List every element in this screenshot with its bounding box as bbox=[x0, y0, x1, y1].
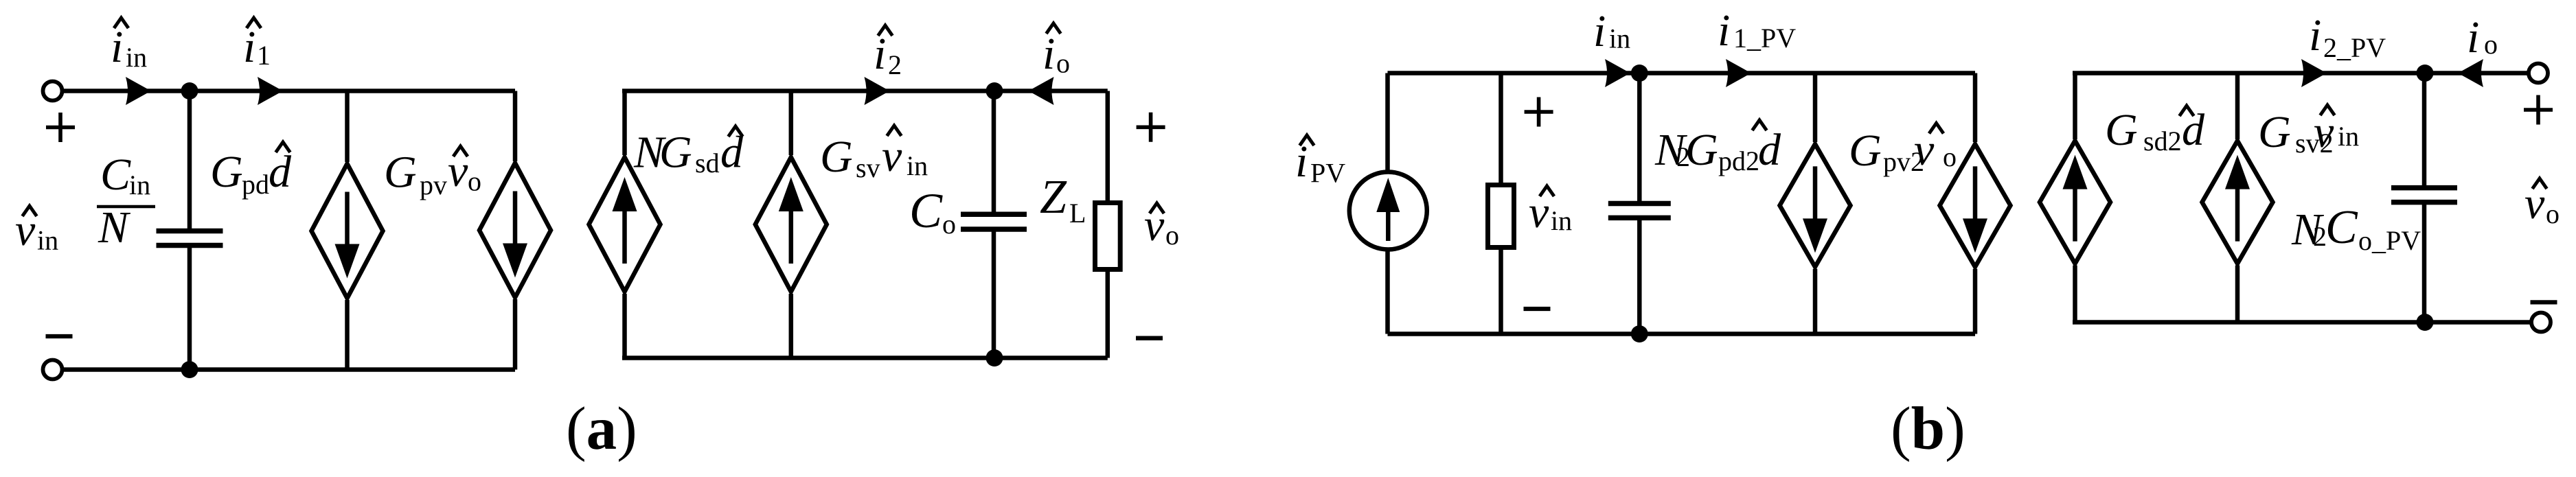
wire left edge top (a-right) bbox=[622, 91, 627, 156]
wire top rail to source N2Gpd2 bbox=[1813, 73, 1818, 143]
current source N2*Gpd2*d bbox=[1780, 144, 1851, 267]
terminal input - (a) bbox=[43, 360, 62, 380]
svg-text:(b): (b) bbox=[1891, 395, 1965, 463]
arrow i_o current direction (b) bbox=[2458, 59, 2483, 87]
svg-text:N: N bbox=[98, 202, 131, 253]
wire right edge bottom (b-left) bbox=[1973, 269, 1978, 334]
svg-text:pd: pd bbox=[242, 169, 269, 200]
svg-text:G: G bbox=[820, 132, 853, 182]
impedance ZL bbox=[1095, 203, 1121, 270]
arrow i_1_PV current direction bbox=[1726, 59, 1751, 87]
current source Gsd2*d bbox=[2040, 141, 2110, 264]
svg-text:C: C bbox=[909, 183, 943, 238]
terminal output - (b) bbox=[2531, 313, 2551, 332]
plus sign v_in (a) bbox=[46, 113, 75, 142]
wire node to capacitor N2Co_PV bbox=[2422, 73, 2427, 189]
arrow i_1 current direction bbox=[258, 77, 283, 105]
node output top junction (b) bbox=[2417, 65, 2434, 82]
svg-text:o: o bbox=[1165, 220, 1179, 251]
wire top rail right block (a) bbox=[622, 89, 1108, 93]
current source Gpv*vo bbox=[479, 163, 551, 298]
svg-text:i: i bbox=[874, 29, 886, 79]
svg-text:o: o bbox=[942, 209, 956, 240]
wire top rail left block (b) bbox=[1388, 71, 1976, 75]
svg-text:in: in bbox=[129, 170, 150, 200]
svg-text:in: in bbox=[1609, 23, 1630, 54]
svg-text:L: L bbox=[1069, 198, 1086, 229]
svg-text:pv: pv bbox=[420, 170, 447, 200]
minus sign v_in (a) bbox=[46, 334, 73, 338]
wire top rail to source Gsv2 bbox=[2235, 73, 2240, 140]
svg-text:o: o bbox=[468, 166, 481, 197]
wire left edge bottom (a-right) bbox=[622, 294, 627, 358]
wire top rail to resistor (b) bbox=[1498, 73, 1503, 184]
svg-text:PV: PV bbox=[1310, 158, 1345, 189]
wire top rail to load ZL bbox=[1106, 91, 1110, 202]
wire top rail left block (a) bbox=[63, 89, 515, 93]
svg-text:in: in bbox=[37, 225, 58, 256]
svg-text:i: i bbox=[2309, 10, 2321, 60]
terminal output + (b) bbox=[2529, 64, 2548, 83]
wire bottom rail right block (a) bbox=[622, 356, 1108, 360]
wire top rail to source Gpd bbox=[345, 91, 350, 163]
svg-text:o: o bbox=[2546, 198, 2560, 229]
current source Gpv2*vo bbox=[1940, 144, 2011, 267]
wire left edge top (b-left) bbox=[1385, 73, 1390, 174]
capacitor input (b) bbox=[1608, 201, 1671, 207]
terminal input + (a) bbox=[43, 82, 62, 101]
wire right edge bottom (a-left) bbox=[513, 299, 518, 370]
wire node to capacitor Co bbox=[992, 91, 996, 216]
svg-text:sd2: sd2 bbox=[2143, 126, 2182, 156]
minus sign v_o (b) bbox=[2531, 300, 2557, 304]
svg-text:o: o bbox=[2484, 29, 2498, 60]
svg-text:in: in bbox=[2338, 121, 2359, 152]
svg-text:i: i bbox=[111, 22, 123, 72]
wire left edge bottom (b-right) bbox=[2073, 266, 2077, 323]
svg-text:v: v bbox=[882, 131, 902, 181]
svg-text:G: G bbox=[210, 147, 243, 197]
svg-text:sv: sv bbox=[856, 152, 880, 183]
svg-text:(a): (a) bbox=[566, 395, 637, 463]
svg-text:G: G bbox=[659, 128, 692, 178]
svg-text:2_PV: 2_PV bbox=[2323, 32, 2386, 63]
current source Gsv*vin bbox=[755, 157, 827, 292]
wire source Gpd to bottom rail bbox=[345, 300, 350, 370]
node input top junction (b) bbox=[1631, 65, 1648, 82]
node output top junction (a) bbox=[986, 82, 1003, 100]
wire capacitor Co to bottom rail bbox=[992, 229, 996, 358]
minus sign v_o (a) bbox=[1136, 336, 1163, 340]
svg-text:v: v bbox=[2314, 107, 2334, 157]
svg-text:1_PV: 1_PV bbox=[1733, 23, 1796, 54]
wire capacitor Cin to bottom rail bbox=[187, 247, 192, 370]
arrow i_in current direction bbox=[126, 77, 151, 105]
capacitor Co bbox=[961, 212, 1027, 218]
arrow i_2_PV current direction bbox=[2301, 59, 2327, 87]
minus sign v_in (b) bbox=[1524, 307, 1551, 311]
node output bottom junction (b) bbox=[2417, 314, 2434, 331]
svg-text:i: i bbox=[1593, 6, 1606, 56]
wire top rail to source Gsv bbox=[789, 91, 794, 156]
capacitor Cin/N bbox=[157, 229, 223, 234]
wire left edge top (b-right) bbox=[2073, 73, 2077, 140]
wire node to capacitor Cin bbox=[187, 91, 192, 230]
wire bottom rail left block (b) bbox=[1388, 331, 1976, 336]
wire resistor to bottom rail (b) bbox=[1498, 249, 1503, 334]
wire bottom rail left block (a) bbox=[63, 367, 515, 372]
node input bottom junction bbox=[181, 361, 198, 378]
svg-text:1: 1 bbox=[257, 40, 271, 71]
svg-text:2: 2 bbox=[2313, 221, 2327, 252]
node output bottom junction (a) bbox=[986, 349, 1003, 367]
svg-text:o: o bbox=[1943, 141, 1957, 172]
wire bottom rail right block (b) bbox=[2073, 320, 2533, 325]
svg-text:in: in bbox=[126, 42, 147, 73]
wire capacitor N2Co_PV to bottom rail bbox=[2422, 202, 2427, 323]
svg-text:G: G bbox=[2258, 107, 2291, 157]
svg-text:i: i bbox=[1042, 29, 1055, 79]
wire load ZL to bottom rail bbox=[1106, 271, 1110, 358]
arrow i_2 current direction bbox=[865, 77, 890, 105]
current source Gpd*d bbox=[312, 164, 383, 299]
node input bottom junction (b) bbox=[1631, 325, 1648, 342]
svg-text:pd2: pd2 bbox=[1718, 146, 1759, 176]
svg-text:i: i bbox=[2467, 12, 2479, 62]
wire left edge bottom (b-left) bbox=[1385, 249, 1390, 334]
wire source N2Gpd2 to bottom rail bbox=[1813, 269, 1818, 334]
arrow i_in current direction (b) bbox=[1605, 59, 1630, 87]
plus sign v_o (a) bbox=[1137, 113, 1165, 142]
capacitor N2*Co_PV bbox=[2391, 185, 2457, 191]
svg-text:G: G bbox=[2105, 105, 2138, 155]
plus sign v_o (b) bbox=[2524, 95, 2553, 125]
svg-text:i: i bbox=[243, 22, 255, 72]
svg-text:d: d bbox=[1758, 125, 1781, 175]
wire top rail right block (b) bbox=[2073, 71, 2529, 75]
svg-text:Z: Z bbox=[1040, 171, 1067, 224]
svg-text:in: in bbox=[907, 150, 928, 181]
svg-text:d: d bbox=[269, 147, 292, 197]
svg-text:o_PV: o_PV bbox=[2358, 225, 2421, 256]
svg-text:G: G bbox=[1849, 126, 1882, 176]
wire node to capacitor (b-left) bbox=[1637, 73, 1642, 205]
wire source Gsv2 to bottom rail bbox=[2235, 266, 2240, 323]
current source N*Gsd*d bbox=[589, 157, 661, 292]
svg-text:sd: sd bbox=[695, 148, 720, 178]
wire source Gsv to bottom rail bbox=[789, 294, 794, 358]
resistor input (b) bbox=[1488, 185, 1514, 248]
node input top junction bbox=[181, 82, 198, 100]
svg-text:G: G bbox=[384, 148, 417, 198]
arrow i_o current direction (a) bbox=[1029, 77, 1054, 105]
svg-text:in: in bbox=[1551, 205, 1572, 236]
svg-text:C: C bbox=[100, 150, 131, 200]
wire right edge top (a-left) bbox=[513, 91, 518, 162]
current source Gsv2*vin bbox=[2202, 141, 2273, 264]
svg-text:G: G bbox=[1685, 125, 1718, 175]
svg-text:i: i bbox=[1718, 5, 1730, 56]
wire capacitor to bottom rail (b-left) bbox=[1637, 218, 1642, 334]
plus sign v_in (b) bbox=[1525, 97, 1553, 127]
svg-text:2: 2 bbox=[888, 49, 902, 80]
svg-text:o: o bbox=[1056, 48, 1070, 79]
current source i_PV bbox=[1349, 172, 1427, 250]
svg-text:C: C bbox=[2325, 201, 2358, 254]
wire right edge top (b-left) bbox=[1973, 73, 1978, 143]
